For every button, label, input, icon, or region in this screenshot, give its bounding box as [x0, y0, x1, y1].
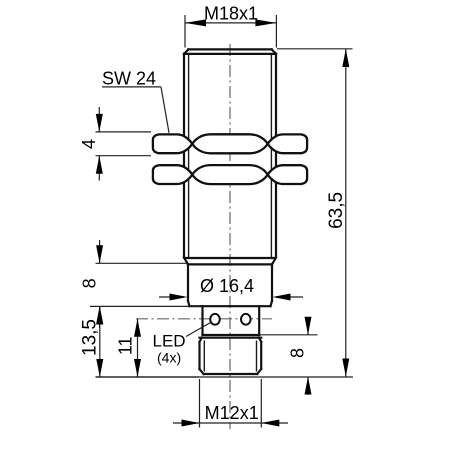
dimension 8 (left, body section) — [90, 240, 199, 328]
svg-text:Ø 16,4: Ø 16,4 — [200, 276, 254, 296]
LED hole left — [210, 314, 220, 325]
svg-text:4: 4 — [79, 139, 99, 149]
svg-text:LED: LED — [153, 331, 186, 350]
long bottom extension line — [96, 376, 354, 378]
svg-text:M12x1: M12x1 — [205, 403, 259, 423]
LED hole right — [241, 314, 251, 325]
svg-text:(4x): (4x) — [157, 350, 181, 366]
M12 thread minor lines — [204, 341, 256, 372]
hex nut 2 — [153, 165, 307, 184]
dimension 11 — [137, 319, 139, 377]
svg-text:63,5: 63,5 — [326, 192, 347, 229]
LED axis centerline — [136, 318, 272, 320]
dimension 13,5 — [96, 306, 200, 377]
thread minor-diameter lines — [189, 55, 272, 257]
dimension M12x1 — [173, 379, 288, 428]
svg-text:8: 8 — [80, 278, 100, 288]
dimension M18x1 — [185, 15, 276, 48]
hex nut 1 (SW 24) — [153, 134, 307, 153]
svg-text:8: 8 — [288, 348, 308, 358]
svg-text:SW 24: SW 24 — [102, 69, 156, 89]
barrel M18 thread body — [184, 49, 276, 264]
svg-text:M18x1: M18x1 — [204, 4, 258, 24]
svg-text:13,5: 13,5 — [79, 319, 100, 356]
svg-text:11: 11 — [116, 336, 136, 355]
LED flange — [203, 306, 260, 335]
vertical centerline — [229, 44, 231, 429]
dimension 8 (right, connector) — [259, 318, 318, 395]
dimension 4 (nut thickness) — [96, 107, 152, 181]
dimension 63,5 — [277, 49, 353, 377]
M12 connector — [200, 338, 262, 374]
smooth body section Ø16,4 — [188, 264, 272, 306]
